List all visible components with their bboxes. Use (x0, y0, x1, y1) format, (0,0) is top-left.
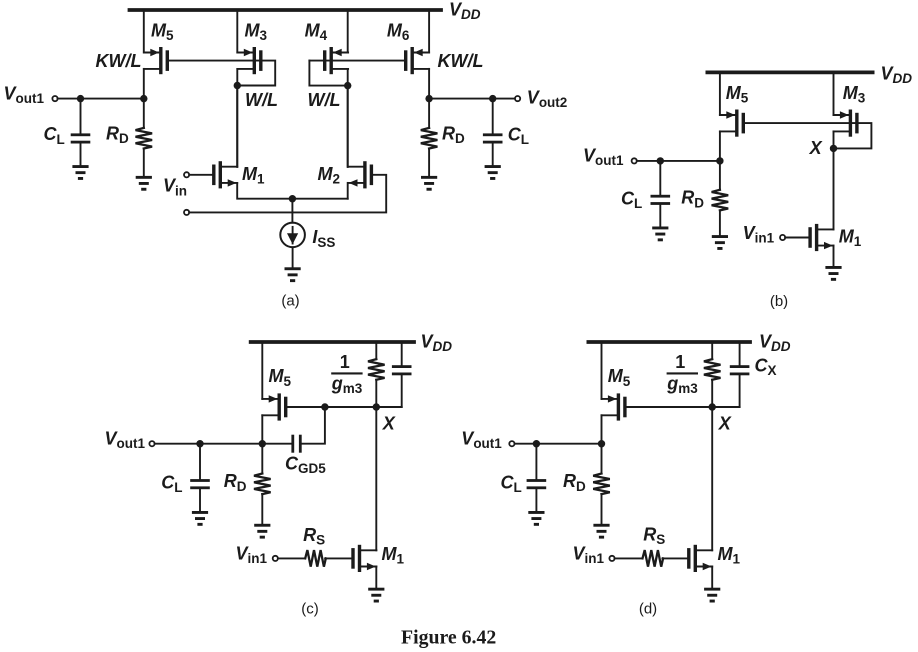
wire Vout1 (c) (155, 443, 292, 445)
transistor M2 (NMOS) (348, 161, 373, 188)
power rail VDD (a) (130, 8, 442, 12)
svg-text:M1: M1 (718, 544, 741, 567)
wire CL top (a-left) (80, 99, 82, 134)
transistor M6 (PMOS) (404, 47, 429, 74)
terminal Vout1 (c) (149, 441, 154, 446)
label M1 (d) (718, 544, 741, 567)
wire RD bottom (a-left) (143, 149, 145, 176)
svg-text:VDD: VDD (881, 64, 913, 87)
svg-text:M6: M6 (387, 20, 410, 43)
svg-text:ISS: ISS (312, 227, 335, 250)
label M3 (a) (245, 20, 268, 43)
capacitor CX (d) (730, 342, 750, 407)
terminal Vout1 (a) (52, 96, 57, 101)
wire CL bottom (a-left) (80, 143, 82, 165)
svg-text:RD: RD (224, 471, 247, 494)
wire M5 source to VDD (d) (601, 342, 603, 399)
svg-text:Vout1: Vout1 (105, 428, 146, 451)
terminal Vin1 (b) (780, 235, 785, 240)
caption (a) (281, 293, 299, 310)
resistor RS (d) (643, 550, 664, 567)
label RD (b) (681, 188, 704, 211)
svg-text:Vout1: Vout1 (583, 145, 624, 168)
wire M6 drain down (428, 69, 430, 99)
wire M1 source down (d) (711, 567, 713, 588)
svg-text:Figure 6.42: Figure 6.42 (401, 627, 496, 649)
svg-text:gm3: gm3 (331, 373, 363, 396)
capacitor CL (b) (651, 195, 671, 205)
capacitor CGD5 (c) (291, 435, 301, 453)
svg-text:1: 1 (675, 352, 685, 372)
wire M4 source to VDD (347, 10, 349, 53)
svg-text:1: 1 (340, 352, 350, 372)
resistor 1/gm3 (c) (368, 342, 385, 407)
transistor M1 (NMOS) (212, 161, 237, 188)
caption (d) (639, 601, 657, 618)
wire CL top (b) (659, 161, 661, 195)
ground CL (a-right) (485, 165, 501, 180)
power rail VDD (c) (251, 340, 414, 344)
label M5 (b) (726, 83, 749, 106)
svg-text:X: X (382, 413, 396, 433)
svg-text:M1: M1 (839, 227, 862, 250)
svg-text:RD: RD (563, 471, 586, 494)
wire M3 drain down (b) (833, 131, 835, 229)
label VDD (d) (759, 331, 791, 354)
wire RD top (b) (719, 161, 721, 190)
svg-text:M5: M5 (269, 366, 292, 389)
node M4 drain (344, 82, 351, 89)
label Vout1 (b) (583, 145, 624, 168)
node M3 drain (234, 82, 241, 89)
label KW/L right (438, 51, 484, 71)
wire CL bottom (a-right) (492, 143, 494, 165)
ground CL (d) (528, 511, 544, 526)
resistor RS (c) (305, 550, 326, 567)
label Vin1 (c) (236, 543, 268, 566)
terminal Vout1 (b) (632, 158, 637, 163)
wire M5 source to VDD (c) (261, 342, 263, 399)
resistor RD (a-left) (136, 128, 153, 149)
svg-text:(b): (b) (770, 293, 788, 310)
label M1 (a) (242, 164, 265, 187)
wire CL bottom (b) (659, 205, 661, 227)
label M4 (a) (305, 20, 328, 43)
wire Vout1 (a) (58, 98, 144, 100)
svg-text:Vout1: Vout1 (461, 428, 502, 451)
terminal Vout2 (a) (515, 96, 520, 101)
wire M5 drain down (c) (261, 415, 263, 443)
wire Vin1 to RS (d) (615, 557, 643, 559)
node Vout2-CL (a) (489, 95, 496, 102)
node tail (289, 195, 296, 202)
node Vout1-RD (a) (140, 95, 147, 102)
transistor M5 (PMOS) (c) (262, 393, 287, 420)
wire M1 source down (b) (833, 246, 835, 266)
svg-text:X: X (718, 413, 732, 433)
label CL (d) (501, 473, 522, 496)
capacitor to VDD (c) (392, 342, 412, 407)
transistor M4 (PMOS, diode-connected) (323, 47, 348, 74)
caption (c) (301, 601, 319, 618)
wire gate line M4-M6 (309, 60, 404, 62)
resistor 1/gm3 (d) (704, 342, 721, 407)
capacitor CL (a-right) (483, 133, 503, 143)
wire CGD5 to gate line (c) (302, 407, 325, 444)
wire Vin to M1 gate (189, 174, 212, 176)
wire M2 gate loop (189, 175, 386, 213)
ground CL (b) (652, 227, 668, 242)
wire CL top (a-right) (492, 99, 494, 134)
label VDD (a) (449, 0, 481, 22)
node Vout1-CL (a) (77, 95, 84, 102)
label RS (c) (303, 525, 325, 548)
node Vout1-RD (c) (259, 440, 266, 447)
svg-text:CL: CL (161, 473, 182, 496)
label X (c) (382, 413, 396, 433)
transistor M5 (PMOS) (144, 47, 169, 74)
label VDD (c) (421, 331, 453, 354)
power rail VDD (d) (588, 340, 750, 344)
label M5 (c) (269, 366, 292, 389)
label CL (b) (621, 188, 642, 211)
label KW/L left (96, 51, 142, 71)
svg-text:X: X (809, 138, 823, 158)
ground M1 (b) (825, 266, 841, 281)
node Vout1-CL (b) (657, 157, 664, 164)
resistor RD (b) (712, 190, 729, 211)
node X (d) (709, 403, 716, 410)
svg-text:VDD: VDD (421, 331, 453, 354)
wire gate line M5-M3 (169, 61, 275, 86)
capacitor CL (a-left) (71, 133, 91, 143)
wire M5 drain down (b) (719, 131, 721, 161)
wire Vin1 to RS (c) (278, 557, 305, 559)
ground CL (a-left) (72, 165, 88, 180)
label CL (a-right) (508, 124, 529, 147)
terminal Vin+ (a) (184, 172, 189, 177)
wire M5 drain down (143, 69, 145, 99)
wire M3 source to VDD (236, 10, 238, 53)
node X (b) (830, 145, 837, 152)
terminal Vin- (a) (184, 210, 189, 215)
label Vout2 (a) (527, 87, 568, 110)
node Vout1-CL (c) (196, 440, 203, 447)
resistor RD (c) (254, 474, 271, 495)
wire M2 drain up (347, 86, 349, 167)
svg-text:CL: CL (44, 124, 65, 147)
label ISS (312, 227, 335, 250)
svg-text:M5: M5 (608, 366, 631, 389)
label W/L right (308, 90, 341, 110)
svg-text:M1: M1 (242, 164, 265, 187)
label CGD5 (c) (285, 453, 326, 476)
wire X down to M1 (d) (711, 407, 713, 550)
svg-text:CGD5: CGD5 (285, 453, 326, 476)
wire gate line M5 to X and cap (d) (627, 406, 740, 408)
terminal Vout1 (d) (509, 441, 514, 446)
label M1 (b) (839, 227, 862, 250)
wire RD top (a-right) (428, 99, 430, 128)
label M2 (a) (318, 164, 341, 187)
svg-text:KW/L: KW/L (438, 51, 484, 71)
wire M4 gate loop (309, 61, 347, 86)
wire M5 source to VDD (143, 10, 145, 53)
caption Figure 6.42 (401, 627, 496, 649)
wire M2 source to tail (347, 183, 349, 199)
label 1/gm3 (d) (666, 352, 698, 396)
wire RD top (c) (261, 444, 263, 474)
wire M5 drain down (d) (601, 415, 603, 443)
label W/L left (245, 90, 278, 110)
terminal Vin1 (c) (273, 556, 278, 561)
svg-text:Vin: Vin (163, 176, 187, 199)
label RD (a-left) (106, 123, 129, 146)
wire M4 drain down (347, 69, 349, 167)
resistor RD (a-right) (421, 128, 438, 149)
svg-text:W/L: W/L (245, 90, 278, 110)
power rail VDD (b) (707, 71, 872, 75)
label M1 (c) (382, 544, 405, 567)
wire gate line M5 to X and cap (c) (287, 406, 401, 408)
transistor M3 (PMOS, diode-connected) (b) (834, 110, 859, 137)
ground RD (a-left) (136, 176, 152, 191)
svg-text:M2: M2 (318, 164, 341, 187)
ground M1 (d) (704, 588, 720, 603)
svg-text:Vin1: Vin1 (743, 223, 775, 246)
svg-text:Vin1: Vin1 (236, 543, 268, 566)
svg-text:M1: M1 (382, 544, 405, 567)
svg-text:RS: RS (303, 525, 325, 548)
ground ISS (285, 267, 301, 282)
svg-text:CL: CL (508, 124, 529, 147)
wire X down to M1 (c) (375, 407, 377, 550)
wire RS to M1 gate (c) (325, 557, 351, 559)
wire Vin1 to M1 gate (b) (785, 237, 808, 239)
svg-text:W/L: W/L (308, 90, 341, 110)
svg-text:CX: CX (755, 355, 777, 378)
wire tail to ISS (291, 199, 293, 223)
wire RD bottom (d) (601, 494, 603, 524)
wire CL bottom (c) (199, 489, 201, 511)
capacitor CL (c) (190, 479, 210, 489)
wire M1 source down (c) (375, 567, 377, 588)
svg-text:RD: RD (681, 188, 704, 211)
svg-text:RS: RS (643, 524, 665, 547)
svg-text:RD: RD (106, 123, 129, 146)
ground CL (c) (192, 511, 208, 526)
ground RD (b) (712, 235, 728, 250)
capacitor CL (d) (527, 479, 547, 489)
label X (d) (718, 413, 732, 433)
node Vout1-CL (d) (533, 440, 540, 447)
label Vin (a) (163, 176, 187, 199)
transistor M5 (PMOS) (b) (720, 110, 745, 137)
label Vout1 (d) (461, 428, 502, 451)
node Vout1-RD (d) (598, 440, 605, 447)
label M3 (b) (843, 83, 866, 106)
wire M3 source to VDD (b) (833, 72, 835, 115)
svg-text:CL: CL (501, 473, 522, 496)
label 1/gm3 (c) (331, 352, 363, 396)
transistor M1 (NMOS) (b) (808, 224, 833, 251)
ground RD (a-right) (421, 176, 437, 191)
wire gate line M5-M3 (b) (745, 123, 871, 148)
transistor M1 (NMOS) (c) (351, 545, 376, 572)
wire RS to M1 gate (d) (662, 557, 687, 559)
transistor M3 (PMOS, diode-connected) (237, 47, 262, 74)
label Vout1 (c) (105, 428, 146, 451)
transistor M1 (NMOS) (d) (687, 545, 712, 572)
label CL (c) (161, 473, 182, 496)
wire RD bottom (b) (719, 210, 721, 235)
ground M1 (c) (368, 588, 384, 603)
wire CL top (d) (535, 444, 537, 479)
wire M6 source to VDD (428, 10, 430, 53)
label M5 (a) (151, 20, 174, 43)
label CL (a-left) (44, 124, 65, 147)
wire RD top (d) (601, 444, 603, 474)
svg-text:M5: M5 (151, 20, 174, 43)
svg-text:Vout1: Vout1 (4, 83, 45, 106)
svg-text:CL: CL (621, 188, 642, 211)
ground RD (c) (254, 524, 270, 539)
wire Vout1 (b) (637, 160, 720, 162)
svg-text:VDD: VDD (759, 331, 791, 354)
svg-text:VDD: VDD (449, 0, 481, 22)
svg-text:(d): (d) (639, 601, 657, 618)
wire RD top (a-left) (143, 99, 145, 128)
label Vout1 (a) (4, 83, 45, 106)
node CGD5 tap (c) (321, 403, 328, 410)
label RS (d) (643, 524, 665, 547)
label Vin1 (d) (573, 543, 605, 566)
label M6 (a) (387, 20, 410, 43)
svg-text:(c): (c) (301, 601, 319, 618)
current source ISS (280, 223, 305, 248)
svg-text:M5: M5 (726, 83, 749, 106)
label RD (c) (224, 471, 247, 494)
wire CL bottom (d) (535, 489, 537, 511)
svg-text:Vout2: Vout2 (527, 87, 568, 110)
terminal Vin1 (d) (609, 556, 614, 561)
label RD (a-right) (442, 123, 465, 146)
label RD (d) (563, 471, 586, 494)
wire M5 source to VDD (b) (719, 72, 721, 115)
label M5 (d) (608, 366, 631, 389)
node Vout1-RD (b) (716, 157, 723, 164)
wire Vout1 (d) (515, 443, 602, 445)
svg-text:gm3: gm3 (666, 373, 698, 396)
svg-text:KW/L: KW/L (96, 51, 142, 71)
wire RD bottom (c) (261, 494, 263, 524)
wire M3 drain down (236, 69, 238, 167)
node X (c) (373, 403, 380, 410)
wire RD bottom (a-right) (428, 149, 430, 176)
transistor M5 (PMOS) (d) (602, 393, 627, 420)
label Vin1 (b) (743, 223, 775, 246)
wire Vout2 (a) (429, 98, 515, 100)
svg-text:Vin1: Vin1 (573, 543, 605, 566)
wire M1 source to tail (237, 183, 348, 199)
ground RD (d) (593, 524, 609, 539)
label CX (d) (755, 355, 777, 378)
svg-text:M4: M4 (305, 20, 328, 43)
svg-text:M3: M3 (843, 83, 866, 106)
wire CL top (c) (199, 444, 201, 479)
node Vout2-RD (a) (425, 95, 432, 102)
resistor RD (d) (593, 474, 610, 495)
svg-text:RD: RD (442, 123, 465, 146)
svg-text:M3: M3 (245, 20, 268, 43)
label VDD (b) (881, 64, 913, 87)
svg-text:(a): (a) (281, 293, 299, 310)
label X (b) (809, 138, 823, 158)
wire M1 drain up (236, 86, 238, 167)
caption (b) (770, 293, 788, 310)
wire ISS to ground (292, 247, 294, 267)
